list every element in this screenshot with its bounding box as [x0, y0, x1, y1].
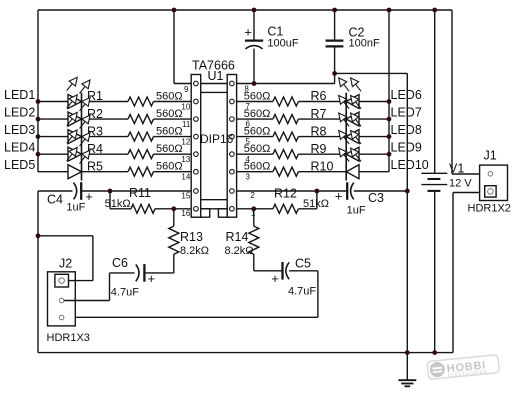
capacitor C1 100uF — [253, 10, 255, 41]
svg-text:LED8: LED8 — [391, 123, 422, 137]
svg-text:1uF: 1uF — [66, 202, 85, 214]
wire pin9 branch from top rail — [173, 10, 175, 84]
svg-text:4.7uF: 4.7uF — [288, 286, 316, 298]
svg-text:DIP16: DIP16 — [200, 132, 234, 146]
svg-text:8.2kΩ: 8.2kΩ — [180, 245, 209, 257]
resistor R14 8.2k&#937; — [253, 209, 255, 226]
wire bus to LED2 — [38, 118, 68, 120]
LED LED7 — [346, 112, 359, 126]
svg-text:LED7: LED7 — [391, 105, 422, 119]
wire pin 8 to C2 branch — [237, 83, 335, 85]
svg-text:11: 11 — [182, 120, 191, 129]
wire J2 pin1 to left bus — [38, 235, 93, 237]
svg-text:560Ω: 560Ω — [244, 126, 271, 138]
resistor R11 51k&#937; — [109, 191, 111, 209]
wire LED3 to resistor R3 — [82, 136, 129, 138]
LED LED10 — [346, 165, 359, 179]
svg-text:9: 9 — [184, 85, 189, 94]
wire R10 to LED10 — [298, 171, 346, 173]
svg-text:HDR1X3: HDR1X3 — [47, 332, 90, 344]
wire R3 to IC pin 12 — [154, 136, 192, 138]
svg-text:1uF: 1uF — [347, 205, 366, 217]
svg-text:+: + — [148, 271, 156, 286]
wire R2 to IC pin 11 — [154, 118, 192, 120]
wire pin 2 row — [237, 190, 348, 192]
svg-text:C3: C3 — [368, 191, 384, 205]
node dots on right LED bus — [387, 99, 392, 104]
svg-text:R14: R14 — [226, 230, 249, 244]
svg-text:J2: J2 — [59, 257, 72, 271]
svg-text:560Ω: 560Ω — [244, 161, 271, 173]
wire R8 to LED8 — [298, 136, 346, 138]
svg-text:2: 2 — [250, 191, 255, 200]
resistor R12 51k&#937; — [237, 208, 254, 210]
svg-text:3: 3 — [246, 172, 251, 181]
wire IC pin 3 to R10 — [237, 171, 273, 173]
svg-text:100nF: 100nF — [349, 38, 380, 50]
wire LED10 to right bus — [359, 171, 389, 173]
svg-text:14: 14 — [181, 173, 190, 182]
svg-text:51kΩ: 51kΩ — [303, 198, 329, 210]
wire R1 to IC pin 10 — [154, 101, 192, 103]
wire left ground-side bus — [37, 191, 39, 353]
wire LED8 to right bus — [359, 136, 389, 138]
svg-text:560Ω: 560Ω — [156, 161, 183, 173]
svg-text:560Ω: 560Ω — [244, 143, 271, 155]
svg-text:LED1: LED1 — [4, 88, 35, 102]
svg-text:100uF: 100uF — [267, 38, 298, 50]
svg-text:LED6: LED6 — [391, 88, 422, 102]
svg-text:C1: C1 — [267, 25, 283, 39]
wire IC pin 5 to R8 — [237, 136, 273, 138]
ground — [406, 353, 408, 381]
svg-text:U1: U1 — [208, 69, 224, 83]
svg-text:+: + — [271, 271, 279, 286]
resistor R13 8.2k&#937; — [173, 209, 175, 226]
svg-text:LED9: LED9 — [391, 140, 422, 154]
svg-text:LED10: LED10 — [391, 158, 429, 172]
wire top +12V rail — [38, 9, 452, 11]
LED LED9 — [346, 147, 359, 161]
LED LED1 — [68, 95, 82, 109]
svg-text:LED2: LED2 — [4, 105, 35, 119]
wire IC pin 6 to R7 — [237, 118, 273, 120]
capacitor C2 100nF — [334, 10, 336, 41]
wire R9 to LED9 — [298, 153, 346, 155]
capacitor C5 4.7uF — [254, 270, 283, 272]
wire J1 pin2 to ground rail — [453, 192, 480, 194]
wire right LED anode bus from top rail — [388, 10, 390, 172]
LED LED4 — [68, 147, 82, 161]
svg-text:16: 16 — [181, 209, 190, 218]
svg-text:12 V: 12 V — [449, 177, 472, 189]
wire top rail to J1 pin1 — [451, 10, 453, 174]
wire LED4 to resistor R4 — [82, 153, 129, 155]
wire left LED anode bus — [37, 10, 39, 172]
svg-text:+: + — [244, 25, 252, 40]
svg-text:560Ω: 560Ω — [156, 126, 183, 138]
svg-text:51kΩ: 51kΩ — [105, 198, 131, 210]
wire bus to LED3 — [38, 136, 68, 138]
wire J2 pin2 to C6 — [64, 300, 110, 302]
wire R4 to IC pin 13 — [154, 153, 192, 155]
capacitor C4 1uF — [38, 190, 73, 192]
svg-text:C4: C4 — [47, 193, 63, 207]
svg-text:+: + — [335, 189, 343, 204]
wire LED5 to resistor R5 — [82, 171, 129, 173]
wire LED6 to right bus — [359, 101, 389, 103]
battery V1 12V — [434, 10, 436, 173]
node junction dots on left bus — [36, 99, 41, 104]
svg-text:13: 13 — [181, 155, 190, 164]
svg-text:560Ω: 560Ω — [156, 91, 183, 103]
svg-text:560Ω: 560Ω — [156, 108, 183, 120]
LED LED3 — [68, 130, 82, 144]
svg-text:LED3: LED3 — [4, 123, 35, 137]
wire C2 net to right vertical bus — [335, 72, 408, 74]
wire bus to LED4 — [38, 153, 68, 155]
wire LED1 to resistor R1 — [82, 101, 129, 103]
svg-text:4.7uF: 4.7uF — [111, 287, 139, 299]
connector J1 HDR1X2 — [480, 165, 508, 200]
watermark HOBBI Elektronika logo — [427, 355, 500, 381]
LED LED2 — [68, 112, 82, 126]
wire C5 to J2 pin3 — [317, 271, 319, 318]
svg-text:HDR1X2: HDR1X2 — [468, 203, 511, 215]
wire R6 to LED6 — [298, 101, 346, 103]
wire IC pin 7 to R6 — [237, 101, 273, 103]
LED LED8 — [346, 130, 359, 144]
wire bus to LED1 — [38, 101, 68, 103]
wire bus to LED5 — [38, 171, 68, 173]
capacitor C6 4.7uF — [110, 272, 135, 274]
wire bottom ground rail — [38, 352, 453, 354]
wire LED7 to right bus — [359, 118, 389, 120]
svg-text:560Ω: 560Ω — [156, 143, 183, 155]
capacitor C3 1uF — [346, 182, 348, 200]
LED LED5 — [68, 165, 82, 179]
svg-text:8.2kΩ: 8.2kΩ — [225, 245, 254, 257]
svg-text:12: 12 — [181, 138, 190, 147]
wire IC pin 4 to R9 — [237, 153, 273, 155]
svg-text:J1: J1 — [484, 149, 497, 163]
svg-text:LED5: LED5 — [4, 158, 35, 172]
svg-text:560Ω: 560Ω — [244, 108, 271, 120]
svg-text:R11: R11 — [129, 186, 151, 200]
svg-text:8: 8 — [244, 85, 249, 94]
svg-text:C5: C5 — [295, 257, 311, 271]
node junction dots on top rail — [172, 8, 177, 13]
wire LED9 to right bus — [359, 153, 389, 155]
connector J2 HDR1X3 — [48, 272, 76, 326]
svg-text:+: + — [85, 189, 93, 204]
wire R7 to LED7 — [298, 118, 346, 120]
wire R5 to IC pin 14 — [154, 171, 192, 173]
svg-text:R12: R12 — [274, 187, 297, 201]
svg-text:LED4: LED4 — [4, 140, 35, 154]
op-amp U1 TA7666 DIP16 package — [191, 75, 236, 218]
LED LED6 — [346, 95, 359, 109]
svg-text:15: 15 — [181, 191, 190, 200]
svg-text:R5: R5 — [87, 159, 103, 173]
svg-text:C6: C6 — [112, 256, 128, 270]
wire LED2 to resistor R2 — [82, 118, 129, 120]
svg-text:10: 10 — [181, 103, 190, 112]
svg-text:R13: R13 — [180, 230, 203, 244]
